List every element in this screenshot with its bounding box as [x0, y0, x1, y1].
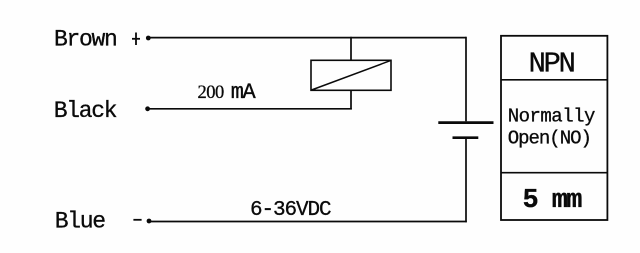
- wire load top connector: [350, 37, 352, 61]
- battery positive plate: [438, 121, 493, 124]
- minus polarity symbol: [133, 219, 141, 221]
- svg-text:Black: Black: [54, 98, 117, 124]
- wire load bottom connector: [350, 90, 352, 109]
- spec box divider lower: [501, 172, 607, 174]
- svg-text:5 mm: 5 mm: [523, 186, 583, 216]
- svg-text:Brown: Brown: [54, 27, 117, 53]
- svg-text:Blue: Blue: [55, 208, 106, 234]
- terminal dot black: [145, 106, 150, 111]
- svg-text:Open(NO): Open(NO): [508, 128, 591, 150]
- terminal dot brown: [146, 36, 151, 41]
- battery negative plate: [453, 136, 479, 139]
- terminal dot blue: [147, 219, 152, 224]
- wire black (output): [150, 108, 352, 110]
- wire blue (-V rail): [151, 221, 467, 223]
- wire right vertical lower: [465, 139, 467, 222]
- svg-text:6-36VDC: 6-36VDC: [250, 199, 331, 222]
- svg-text:mA: mA: [231, 80, 257, 105]
- svg-text:Normally: Normally: [508, 106, 595, 128]
- spec box divider upper: [501, 79, 607, 81]
- sensor spec box outline: [501, 36, 607, 220]
- load diagonal stripe: [312, 61, 391, 90]
- svg-text:NPN: NPN: [529, 47, 575, 80]
- plus polarity symbol: [132, 33, 140, 46]
- load resistor box: [311, 60, 391, 90]
- wire brown (+V rail): [150, 37, 467, 39]
- svg-text:200: 200: [198, 83, 225, 103]
- wire right vertical upper: [465, 37, 467, 122]
